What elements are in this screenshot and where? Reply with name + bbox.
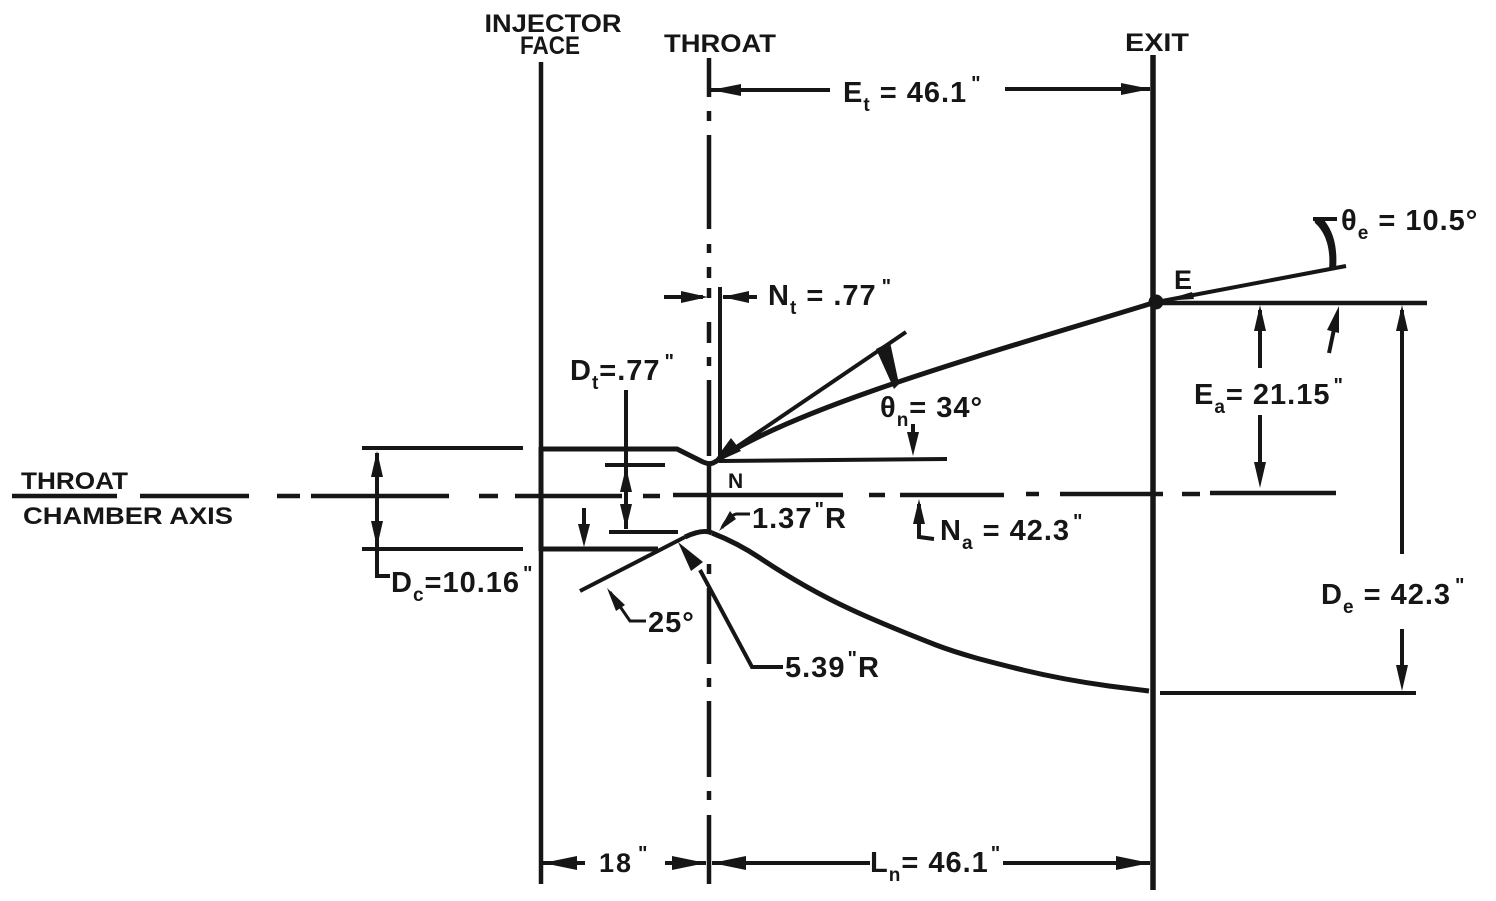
upper bell contour N to E bbox=[719, 302, 1156, 459]
svg-text:1.37"R: 1.37"R bbox=[752, 499, 847, 535]
lower bell contour bbox=[712, 533, 1149, 691]
exit bottom reference line bbox=[1160, 691, 1416, 695]
svg-text:CHAMBER AXIS: CHAMBER AXIS bbox=[23, 503, 233, 530]
Dt upper extension tick bbox=[605, 463, 665, 467]
chamber left wall bbox=[539, 447, 544, 551]
theta-n down arrow bbox=[911, 424, 915, 448]
svg-text:FACE: FACE bbox=[520, 32, 580, 60]
lower throat radius crest bbox=[685, 531, 712, 537]
svg-text:Dc=10.16": Dc=10.16" bbox=[391, 563, 534, 606]
exit reference line bbox=[1150, 55, 1156, 890]
chamber axis centerline (horizontal dash-dot) bbox=[12, 493, 1336, 496]
vertical extension line above N bbox=[718, 287, 722, 459]
theta-n angle tick between lines bbox=[876, 342, 899, 389]
nozzle initial tangent line 34deg bbox=[716, 332, 906, 461]
svg-text:N: N bbox=[728, 470, 743, 493]
svg-text:5.39"R: 5.39"R bbox=[785, 648, 880, 684]
svg-text:θe = 10.5°: θe = 10.5° bbox=[1341, 205, 1478, 244]
dimension De = 42.3 bbox=[1400, 310, 1404, 554]
leader 1.37 R bbox=[722, 514, 750, 528]
Dc lower extension line bbox=[362, 547, 523, 551]
arrowhead on exit tangent at E bbox=[1162, 292, 1194, 301]
dimension Ea = 21.15 bbox=[1258, 310, 1262, 368]
svg-text:Et = 46.1": Et = 46.1" bbox=[843, 73, 982, 116]
svg-text:Nt = .77": Nt = .77" bbox=[768, 276, 892, 319]
svg-text:THROAT: THROAT bbox=[664, 30, 776, 58]
svg-text:De = 42.3": De = 42.3" bbox=[1321, 575, 1466, 618]
exit tangent line bbox=[1162, 266, 1346, 301]
throat reference line (vertical dash-dot) bbox=[707, 58, 712, 884]
svg-text:Ea= 21.15": Ea= 21.15" bbox=[1194, 375, 1344, 418]
svg-text:Dt=.77": Dt=.77" bbox=[570, 351, 675, 394]
svg-text:THROAT: THROAT bbox=[21, 468, 128, 495]
exit level horizontal reference line bbox=[1163, 301, 1427, 306]
dimension Na = 42.3 leader bbox=[919, 504, 934, 539]
dimension Nt = .77 bbox=[664, 295, 703, 299]
svg-text:θn= 34°: θn= 34° bbox=[880, 392, 983, 431]
horizontal reference line from N bbox=[719, 459, 947, 461]
small arrow at chamber lower wall bbox=[582, 508, 586, 538]
leader 25 deg bbox=[610, 592, 646, 621]
injector face reference line bbox=[539, 62, 544, 884]
dimension Ln = 46.1 bbox=[712, 861, 870, 865]
leader 5.39 R bbox=[700, 570, 783, 667]
Dc dimension line with hook bbox=[377, 453, 390, 576]
svg-text:E: E bbox=[1174, 265, 1192, 295]
svg-text:EXIT: EXIT bbox=[1125, 29, 1189, 57]
label INJECTOR FACE bbox=[485, 10, 622, 60]
chamber upper wall and convergent contour bbox=[541, 449, 719, 464]
dimension Et = 46.1 top bbox=[711, 88, 830, 92]
lower convergent line with 25deg extension bbox=[580, 537, 685, 591]
theta-e reference arrow (slanted) bbox=[1329, 315, 1337, 353]
chamber lower wall bbox=[541, 547, 658, 552]
Dt dimension line bbox=[624, 390, 628, 529]
arrowhead at N on tangent line bbox=[712, 438, 741, 464]
Dt lower extension tick bbox=[609, 530, 678, 534]
svg-text:25°: 25° bbox=[648, 607, 695, 639]
theta-e curved leader bbox=[1314, 218, 1336, 269]
exit point E bbox=[1149, 295, 1164, 310]
label THROAT / CHAMBER AXIS bbox=[21, 468, 233, 530]
svg-text:Ln= 46.1": Ln= 46.1" bbox=[870, 843, 1001, 886]
svg-text:Na = 42.3": Na = 42.3" bbox=[940, 511, 1084, 554]
theta-e leader bar bbox=[1313, 217, 1337, 221]
Dc upper extension line bbox=[362, 446, 523, 450]
svg-text:18": 18" bbox=[599, 843, 650, 878]
dimension 18 inch bbox=[543, 861, 585, 865]
